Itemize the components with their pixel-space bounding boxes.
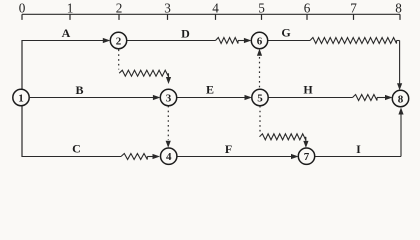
- activity H arrow (5 to 8) with float zigzag: [268, 82, 392, 100]
- wire: left vertical from corner A down through node 1 to corner C: [21, 40, 23, 157]
- svg-text:A: A: [62, 26, 71, 40]
- svg-text:1: 1: [18, 92, 24, 104]
- activity D arrow (2 to 6) with float zigzag: [126, 26, 251, 43]
- svg-text:3: 3: [164, 1, 171, 16]
- svg-text:5: 5: [258, 1, 265, 16]
- svg-text:1: 1: [67, 1, 74, 16]
- node 8: [392, 90, 408, 106]
- svg-text:2: 2: [116, 1, 123, 16]
- node 4: [161, 148, 177, 164]
- activity A arrow (1 to 2): [22, 26, 111, 43]
- svg-text:G: G: [281, 26, 290, 40]
- activity C arrow (1 to 4) with float zigzag: [22, 141, 161, 159]
- node 3: [160, 89, 176, 105]
- activity G arrow (6 to 8) with long float zigzag and corner down: [267, 26, 402, 91]
- dummy: dotted drop below node 2 to float zigzag: [119, 50, 171, 85]
- node 2: [110, 32, 126, 48]
- svg-text:E: E: [206, 82, 214, 96]
- svg-text:8: 8: [395, 1, 402, 16]
- tick 8: [395, 1, 402, 20]
- node 7: [298, 148, 314, 164]
- svg-text:7: 7: [350, 1, 357, 16]
- time scale axis: [22, 13, 400, 15]
- tick 5: [258, 1, 265, 20]
- svg-text:H: H: [303, 82, 313, 96]
- tick 4: [212, 1, 219, 20]
- svg-text:7: 7: [304, 151, 310, 163]
- tick 3: [164, 1, 171, 20]
- svg-text:8: 8: [398, 93, 404, 105]
- tick 1: [67, 1, 74, 20]
- dummy arrow 5 to 6 (dotted, arrowhead up into node 6): [257, 49, 262, 90]
- activity F arrow (4 to 7): [176, 142, 298, 159]
- node 6: [251, 32, 267, 48]
- svg-text:B: B: [75, 83, 83, 97]
- tick 6: [304, 1, 311, 20]
- svg-text:5: 5: [257, 92, 263, 104]
- svg-text:0: 0: [19, 1, 26, 16]
- svg-text:6: 6: [304, 1, 311, 16]
- float: dotted drop below node 5, zigzag, arrow down into node 7: [260, 106, 309, 148]
- svg-text:2: 2: [116, 35, 122, 47]
- tick 2: [116, 1, 123, 20]
- node 1: [13, 89, 29, 105]
- tick 0: [19, 1, 26, 20]
- tick 7: [350, 1, 357, 20]
- svg-text:4: 4: [166, 151, 172, 163]
- svg-text:F: F: [225, 142, 232, 156]
- dummy arrow 3 to 4 (dotted, arrowhead down into node 4): [166, 106, 171, 148]
- svg-text:3: 3: [166, 92, 172, 104]
- activity E arrow (3 to 5): [177, 82, 252, 100]
- activity I arrow (7 to 8) with corner up: [315, 108, 404, 157]
- activity B arrow (1 to 3): [30, 83, 161, 100]
- svg-text:D: D: [181, 26, 190, 40]
- svg-text:4: 4: [212, 1, 219, 16]
- node 5: [252, 89, 268, 105]
- svg-text:C: C: [72, 141, 81, 155]
- svg-text:6: 6: [257, 35, 263, 47]
- svg-text:I: I: [356, 142, 361, 156]
